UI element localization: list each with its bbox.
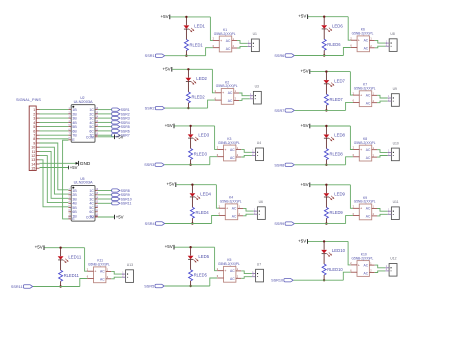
svg-text:LED5: LED5 [198, 254, 209, 259]
svg-text:SSR2: SSR2 [145, 107, 155, 111]
connector pin 7 [33, 134, 39, 138]
junction bottom [325, 164, 327, 166]
wire SSR input [33, 286, 80, 288]
wire SSR input [295, 109, 346, 111]
wire output SSR6 [98, 130, 112, 132]
wire relay to connector top [241, 150, 252, 153]
svg-text:LED3: LED3 [198, 133, 209, 138]
svg-text:GND: GND [80, 161, 91, 166]
svg-text:SSR9: SSR9 [274, 222, 284, 226]
svg-text:ULN2003A: ULN2003A [74, 180, 93, 185]
svg-text:G5NB-2(XX)PL: G5NB-2(XX)PL [214, 32, 236, 36]
wire COM [98, 136, 115, 138]
connector pin 1 [33, 108, 39, 112]
wire +5V rail [310, 184, 350, 186]
junction top [59, 247, 61, 249]
svg-text:G5NB-2(XX)PL: G5NB-2(XX)PL [354, 87, 376, 91]
junction top [191, 184, 193, 186]
wire signal 3 [40, 117, 69, 119]
net flag SSR7 [274, 109, 294, 113]
resistor RLED11 [59, 260, 80, 286]
svg-text:RLED7: RLED7 [330, 97, 344, 102]
wire output SSR3 [98, 117, 112, 119]
wire signal 5 [40, 126, 69, 128]
resistor RLED8 [324, 138, 343, 164]
junction bottom [189, 285, 191, 287]
wire +5V rail [308, 16, 348, 18]
svg-text:LED2: LED2 [196, 76, 207, 81]
wire +5V rail [174, 246, 214, 248]
wire relay to connector top [111, 271, 122, 274]
svg-text:AC: AC [232, 207, 237, 211]
wire SSR input [295, 164, 346, 166]
svg-text:RLED11: RLED11 [64, 273, 80, 278]
relay K3 [217, 137, 241, 161]
wire to relay pin 2 [216, 185, 219, 209]
svg-text:U11: U11 [393, 200, 399, 204]
junction top [185, 16, 187, 18]
svg-text:LED6: LED6 [332, 23, 343, 28]
svg-text:+5V: +5V [70, 165, 78, 170]
net flag SSR2 [112, 112, 130, 116]
junction bottom [59, 285, 61, 287]
net flag SSR10 [271, 279, 293, 283]
svg-text:+5V: +5V [165, 123, 173, 128]
wire signal 13 [40, 160, 69, 207]
svg-text:U13: U13 [127, 263, 133, 267]
connector U9 [388, 87, 400, 106]
svg-text:+: + [224, 269, 227, 273]
net flag SSR11 [11, 285, 33, 289]
wire relay to connector top [375, 40, 386, 43]
relay K5 [217, 258, 241, 282]
LED LED6 [321, 18, 343, 32]
wire relay to connector top [241, 271, 252, 274]
connector pin 6 [33, 129, 39, 133]
wire to relay pin 6 [208, 100, 215, 108]
net flag SSR6 [112, 129, 130, 133]
wire to relay pin 2 [210, 17, 213, 41]
wire to relay pin 6 [210, 278, 217, 286]
connector U6 [254, 200, 266, 219]
svg-text:SIGNAL_PINS: SIGNAL_PINS [16, 98, 41, 102]
+5V supply block 11 [35, 245, 44, 250]
svg-text:+: + [360, 148, 363, 152]
wire to relay pin 6 [210, 157, 217, 165]
resistor RLED5 [189, 259, 208, 285]
wire to relay pin 2 [85, 248, 88, 272]
connector U11 [388, 200, 400, 219]
connector U10 [388, 141, 400, 160]
wire signal 15 [40, 167, 69, 169]
wire output SSR8 [98, 190, 112, 192]
LED LED9 [324, 186, 346, 200]
svg-text:RLED10: RLED10 [327, 267, 343, 272]
svg-text:AC: AC [364, 39, 369, 43]
wire relay to connector bottom [237, 46, 248, 48]
svg-text:LED9: LED9 [334, 192, 345, 197]
wire signal 10 [40, 147, 69, 194]
wire relay to connector top [377, 209, 388, 212]
junction bottom [189, 164, 191, 166]
relay K10 [350, 252, 374, 276]
svg-text:+: + [220, 39, 223, 43]
svg-text:+5V: +5V [165, 244, 173, 249]
wire to relay pin 2 [348, 17, 351, 41]
wire signal 1 [40, 109, 69, 111]
connector pin 10 [31, 146, 39, 150]
svg-text:+5V: +5V [298, 238, 306, 243]
relay K2 [215, 80, 239, 104]
resistor RLED4 [190, 197, 209, 223]
wire +5V rail [310, 125, 350, 127]
svg-text:AC: AC [230, 269, 235, 273]
svg-text:SSR11: SSR11 [121, 202, 132, 206]
wire COM [98, 216, 115, 218]
wire relay to connector bottom [377, 214, 388, 216]
svg-text:AC: AC [100, 270, 105, 274]
svg-text:AC: AC [230, 277, 235, 281]
svg-text:+: + [360, 207, 363, 211]
wire to relay pin 6 [346, 216, 353, 224]
connector U3 [250, 85, 262, 104]
IC U5 ULN2003A [68, 177, 98, 221]
junction top [187, 68, 189, 70]
power +5V COM [115, 215, 124, 220]
svg-text:G5NB-2(XX)PL: G5NB-2(XX)PL [216, 84, 238, 88]
svg-text:AC: AC [366, 102, 371, 106]
svg-text:+: + [224, 148, 227, 152]
connector SIGNAL_PINS [16, 98, 41, 170]
+5V supply block 6 [298, 14, 307, 19]
LED LED1 [184, 18, 206, 32]
wire to relay pin 6 [206, 48, 213, 56]
svg-text:AC: AC [366, 156, 371, 160]
svg-text:G5NB-2(XX)PL: G5NB-2(XX)PL [352, 32, 374, 36]
wire to relay pin 2 [215, 126, 218, 149]
svg-text:+5V: +5V [298, 14, 306, 19]
connector U8 [386, 32, 398, 51]
wire SSR input [165, 55, 206, 57]
svg-text:AC: AC [364, 271, 369, 275]
wire relay to connector bottom [239, 99, 250, 101]
svg-text:+: + [226, 207, 229, 211]
svg-text:+5V: +5V [116, 215, 124, 220]
junction top [325, 125, 327, 127]
svg-text:ULN2003A: ULN2003A [74, 99, 93, 104]
LED LED7 [324, 73, 346, 87]
svg-text:AC: AC [364, 47, 369, 51]
svg-text:11: 11 [96, 210, 99, 212]
svg-text:SSR4: SSR4 [145, 222, 155, 226]
LED LED5 [188, 248, 210, 262]
svg-text:AC: AC [226, 39, 231, 43]
net flag SSR3 [112, 117, 130, 121]
wire SSR input [295, 55, 344, 57]
resistor RLED9 [324, 197, 343, 223]
connector pin 15 [31, 167, 39, 171]
ground GND [76, 161, 91, 166]
net flag SSR2 [145, 106, 165, 110]
svg-text:+: + [360, 94, 363, 98]
power +5V COM [115, 134, 124, 139]
resistor RLED1 [184, 29, 203, 55]
relay K4 [219, 196, 243, 220]
wire signal 14 [40, 162, 78, 164]
net flag SSR9 [112, 193, 130, 197]
LED LED3 [188, 127, 210, 141]
wire to relay pin 2 [212, 69, 215, 93]
wire output SSR7 [98, 134, 112, 136]
svg-text:+: + [358, 39, 361, 43]
svg-text:AC: AC [230, 156, 235, 160]
svg-text:+: + [358, 263, 361, 267]
svg-text:SSR1: SSR1 [145, 54, 155, 58]
connector pin 11 [32, 150, 40, 154]
+5V supply block 9 [300, 182, 309, 187]
wire signal 12 [40, 156, 69, 203]
svg-text:G5NB-2(XX)PL: G5NB-2(XX)PL [88, 263, 110, 267]
wire +5V rail [44, 247, 84, 249]
svg-text:AC: AC [366, 215, 371, 219]
connector U7 [252, 263, 264, 282]
net flag SSR4 [145, 222, 165, 226]
net flag SSR8 [274, 163, 294, 167]
wire signal 8 to E [40, 138, 69, 140]
svg-text:12: 12 [96, 206, 99, 208]
wire to relay pin 6 [343, 272, 350, 280]
wire relay to connector bottom [377, 101, 388, 103]
junction top [325, 70, 327, 72]
IC U2 ULN2003A [68, 96, 98, 142]
svg-text:+5V: +5V [116, 134, 124, 139]
wire E net [63, 140, 69, 219]
wire SSR input [165, 164, 210, 166]
svg-text:AC: AC [366, 148, 371, 152]
junction bottom [325, 222, 327, 224]
junction top [189, 246, 191, 248]
svg-text:AC: AC [100, 278, 105, 282]
svg-text:AC: AC [230, 148, 235, 152]
+5V supply block 8 [300, 123, 309, 128]
wire signal 2 [40, 113, 69, 115]
net flag SSR1 [145, 54, 165, 58]
junction top [323, 240, 325, 242]
svg-text:G5NB-2(XX)PL: G5NB-2(XX)PL [354, 200, 376, 204]
junction bottom [325, 109, 327, 111]
wire output SSR1 [98, 109, 112, 111]
svg-text:+: + [222, 91, 225, 95]
wire signal 11 [40, 151, 69, 198]
svg-text:SSR3: SSR3 [144, 163, 154, 167]
wire signal 9 [40, 143, 69, 190]
wire to relay pin 6 [346, 157, 353, 165]
svg-text:AC: AC [364, 263, 369, 267]
svg-text:U1: U1 [253, 32, 257, 36]
wire to relay pin 2 [350, 126, 353, 150]
wire signal 7 [40, 134, 69, 136]
svg-text:SSR7: SSR7 [274, 109, 284, 113]
+5V supply block 4 [166, 182, 175, 187]
wire relay to connector bottom [375, 46, 386, 48]
wire SSR input [295, 223, 346, 225]
wire output SSR4 [98, 121, 112, 123]
wire relay to connector bottom [377, 156, 388, 158]
+5V supply block 3 [165, 123, 174, 128]
wire +5V rail [308, 240, 348, 242]
relay K1 [213, 28, 237, 52]
wire relay to connector top [239, 93, 250, 96]
connector pin 12 [31, 154, 39, 158]
svg-text:U6: U6 [259, 200, 263, 204]
svg-text:AC: AC [232, 215, 237, 219]
svg-text:LED4: LED4 [200, 191, 211, 196]
relay K11 [87, 259, 111, 283]
connector U1 [248, 32, 260, 51]
svg-text:7B: 7B [72, 134, 77, 138]
svg-text:G5NB-2(XX)PL: G5NB-2(XX)PL [220, 200, 242, 204]
svg-text:E: E [72, 138, 75, 142]
wire +5V rail [172, 68, 212, 70]
wire relay to connector bottom [241, 277, 252, 279]
junction top [325, 184, 327, 186]
net flag SSR11 [112, 202, 132, 206]
svg-text:G5NB-2(XX)PL: G5NB-2(XX)PL [218, 141, 240, 145]
junction bottom [323, 279, 325, 281]
svg-text:SSR5: SSR5 [144, 285, 154, 289]
svg-text:AC: AC [228, 91, 233, 95]
junction bottom [191, 222, 193, 224]
svg-text:SSR8: SSR8 [274, 163, 284, 167]
LED LED8 [324, 127, 346, 141]
svg-text:LED7: LED7 [334, 78, 345, 83]
svg-text:RLED9: RLED9 [330, 210, 344, 215]
svg-text:+5V: +5V [300, 182, 308, 187]
wire +5V rail [176, 184, 216, 186]
svg-text:+5V: +5V [162, 66, 170, 71]
resistor RLED3 [189, 138, 208, 164]
+5V supply block 7 [300, 69, 309, 74]
svg-text:RLED5: RLED5 [194, 273, 208, 278]
junction bottom [185, 55, 187, 57]
resistor RLED10 [322, 254, 343, 280]
net flag SSR1 [112, 108, 130, 112]
resistor RLED6 [322, 29, 341, 55]
wire to relay pin 6 [346, 102, 353, 110]
connector pin 3 [33, 117, 39, 121]
connector pin 2 [33, 112, 39, 116]
wire SSR input [294, 279, 344, 281]
connector pin 8 [33, 137, 39, 141]
connector U12 [385, 257, 397, 276]
wire to relay pin 6 [343, 48, 350, 56]
svg-text:U12: U12 [390, 257, 396, 261]
svg-text:U3: U3 [255, 85, 259, 89]
wire to relay pin 2 [350, 72, 353, 96]
relay K9 [353, 196, 377, 220]
connector pin 13 [31, 158, 39, 162]
svg-text:COM: COM [86, 216, 94, 220]
+5V supply block 5 [165, 244, 174, 249]
svg-text:U8: U8 [390, 32, 394, 36]
svg-text:LED8: LED8 [334, 133, 345, 138]
wire to relay pin 2 [350, 185, 353, 209]
wire relay to connector top [237, 41, 248, 44]
wire +5V rail [310, 71, 350, 73]
power +5V left [69, 165, 78, 170]
svg-text:LED10: LED10 [332, 248, 346, 253]
+5V supply block 2 [162, 66, 171, 71]
wire relay to connector bottom [241, 155, 252, 157]
connector U4 [252, 141, 264, 160]
svg-text:RLED6: RLED6 [327, 42, 341, 47]
net flag SSR5 [144, 284, 164, 288]
net flag SSR9 [274, 222, 294, 226]
wire SSR input [165, 285, 210, 287]
junction top [323, 16, 325, 18]
svg-text:AC: AC [226, 47, 231, 51]
svg-text:SSR10: SSR10 [271, 279, 283, 283]
wire relay to connector bottom [111, 277, 122, 279]
svg-text:U9: U9 [393, 87, 397, 91]
wire relay to connector top [375, 265, 386, 268]
connector pin 14 [31, 162, 39, 166]
net flag SSR4 [112, 121, 130, 125]
resistor RLED7 [324, 84, 343, 110]
junction bottom [323, 54, 325, 56]
wire to relay pin 2 [348, 241, 351, 265]
connector U13 [122, 263, 134, 282]
+5V supply block 1 [160, 14, 169, 19]
svg-text:AC: AC [366, 94, 371, 98]
wire +5V rail [174, 125, 214, 127]
svg-text:+5V: +5V [300, 123, 308, 128]
svg-text:RLED8: RLED8 [330, 151, 344, 156]
wire signal 6 [40, 130, 69, 132]
svg-text:15: 15 [31, 167, 35, 171]
svg-text:SSR11: SSR11 [11, 285, 23, 289]
svg-text:AC: AC [228, 99, 233, 103]
connector pin 4 [33, 121, 39, 125]
relay K8 [353, 137, 377, 161]
svg-text:+5V: +5V [300, 69, 308, 74]
junction top [189, 125, 191, 127]
relay K7 [353, 83, 377, 107]
wire SSR input [165, 107, 208, 109]
svg-text:G5NB-2(XX)PL: G5NB-2(XX)PL [354, 141, 376, 145]
net flag SSR7 [112, 134, 130, 138]
svg-text:RLED3: RLED3 [194, 151, 208, 156]
wire signal 4 [40, 121, 69, 123]
wire SSR input [165, 223, 212, 225]
net flag SSR6 [274, 54, 294, 58]
svg-text:U7: U7 [257, 263, 261, 267]
svg-text:AC: AC [366, 207, 371, 211]
LED LED2 [186, 70, 208, 84]
svg-text:COM: COM [86, 135, 94, 139]
LED LED4 [190, 186, 212, 200]
LED LED11 [58, 249, 82, 263]
junction bottom [187, 107, 189, 109]
svg-text:G5NB-2(XX)PL: G5NB-2(XX)PL [352, 256, 374, 260]
net flag SSR10 [112, 197, 132, 201]
LED LED10 [321, 242, 345, 256]
wire relay to connector bottom [375, 271, 386, 273]
svg-text:LED11: LED11 [68, 254, 81, 259]
svg-text:+: + [94, 270, 97, 274]
wire output SSR11 [98, 202, 112, 204]
wire relay to connector top [377, 150, 388, 153]
